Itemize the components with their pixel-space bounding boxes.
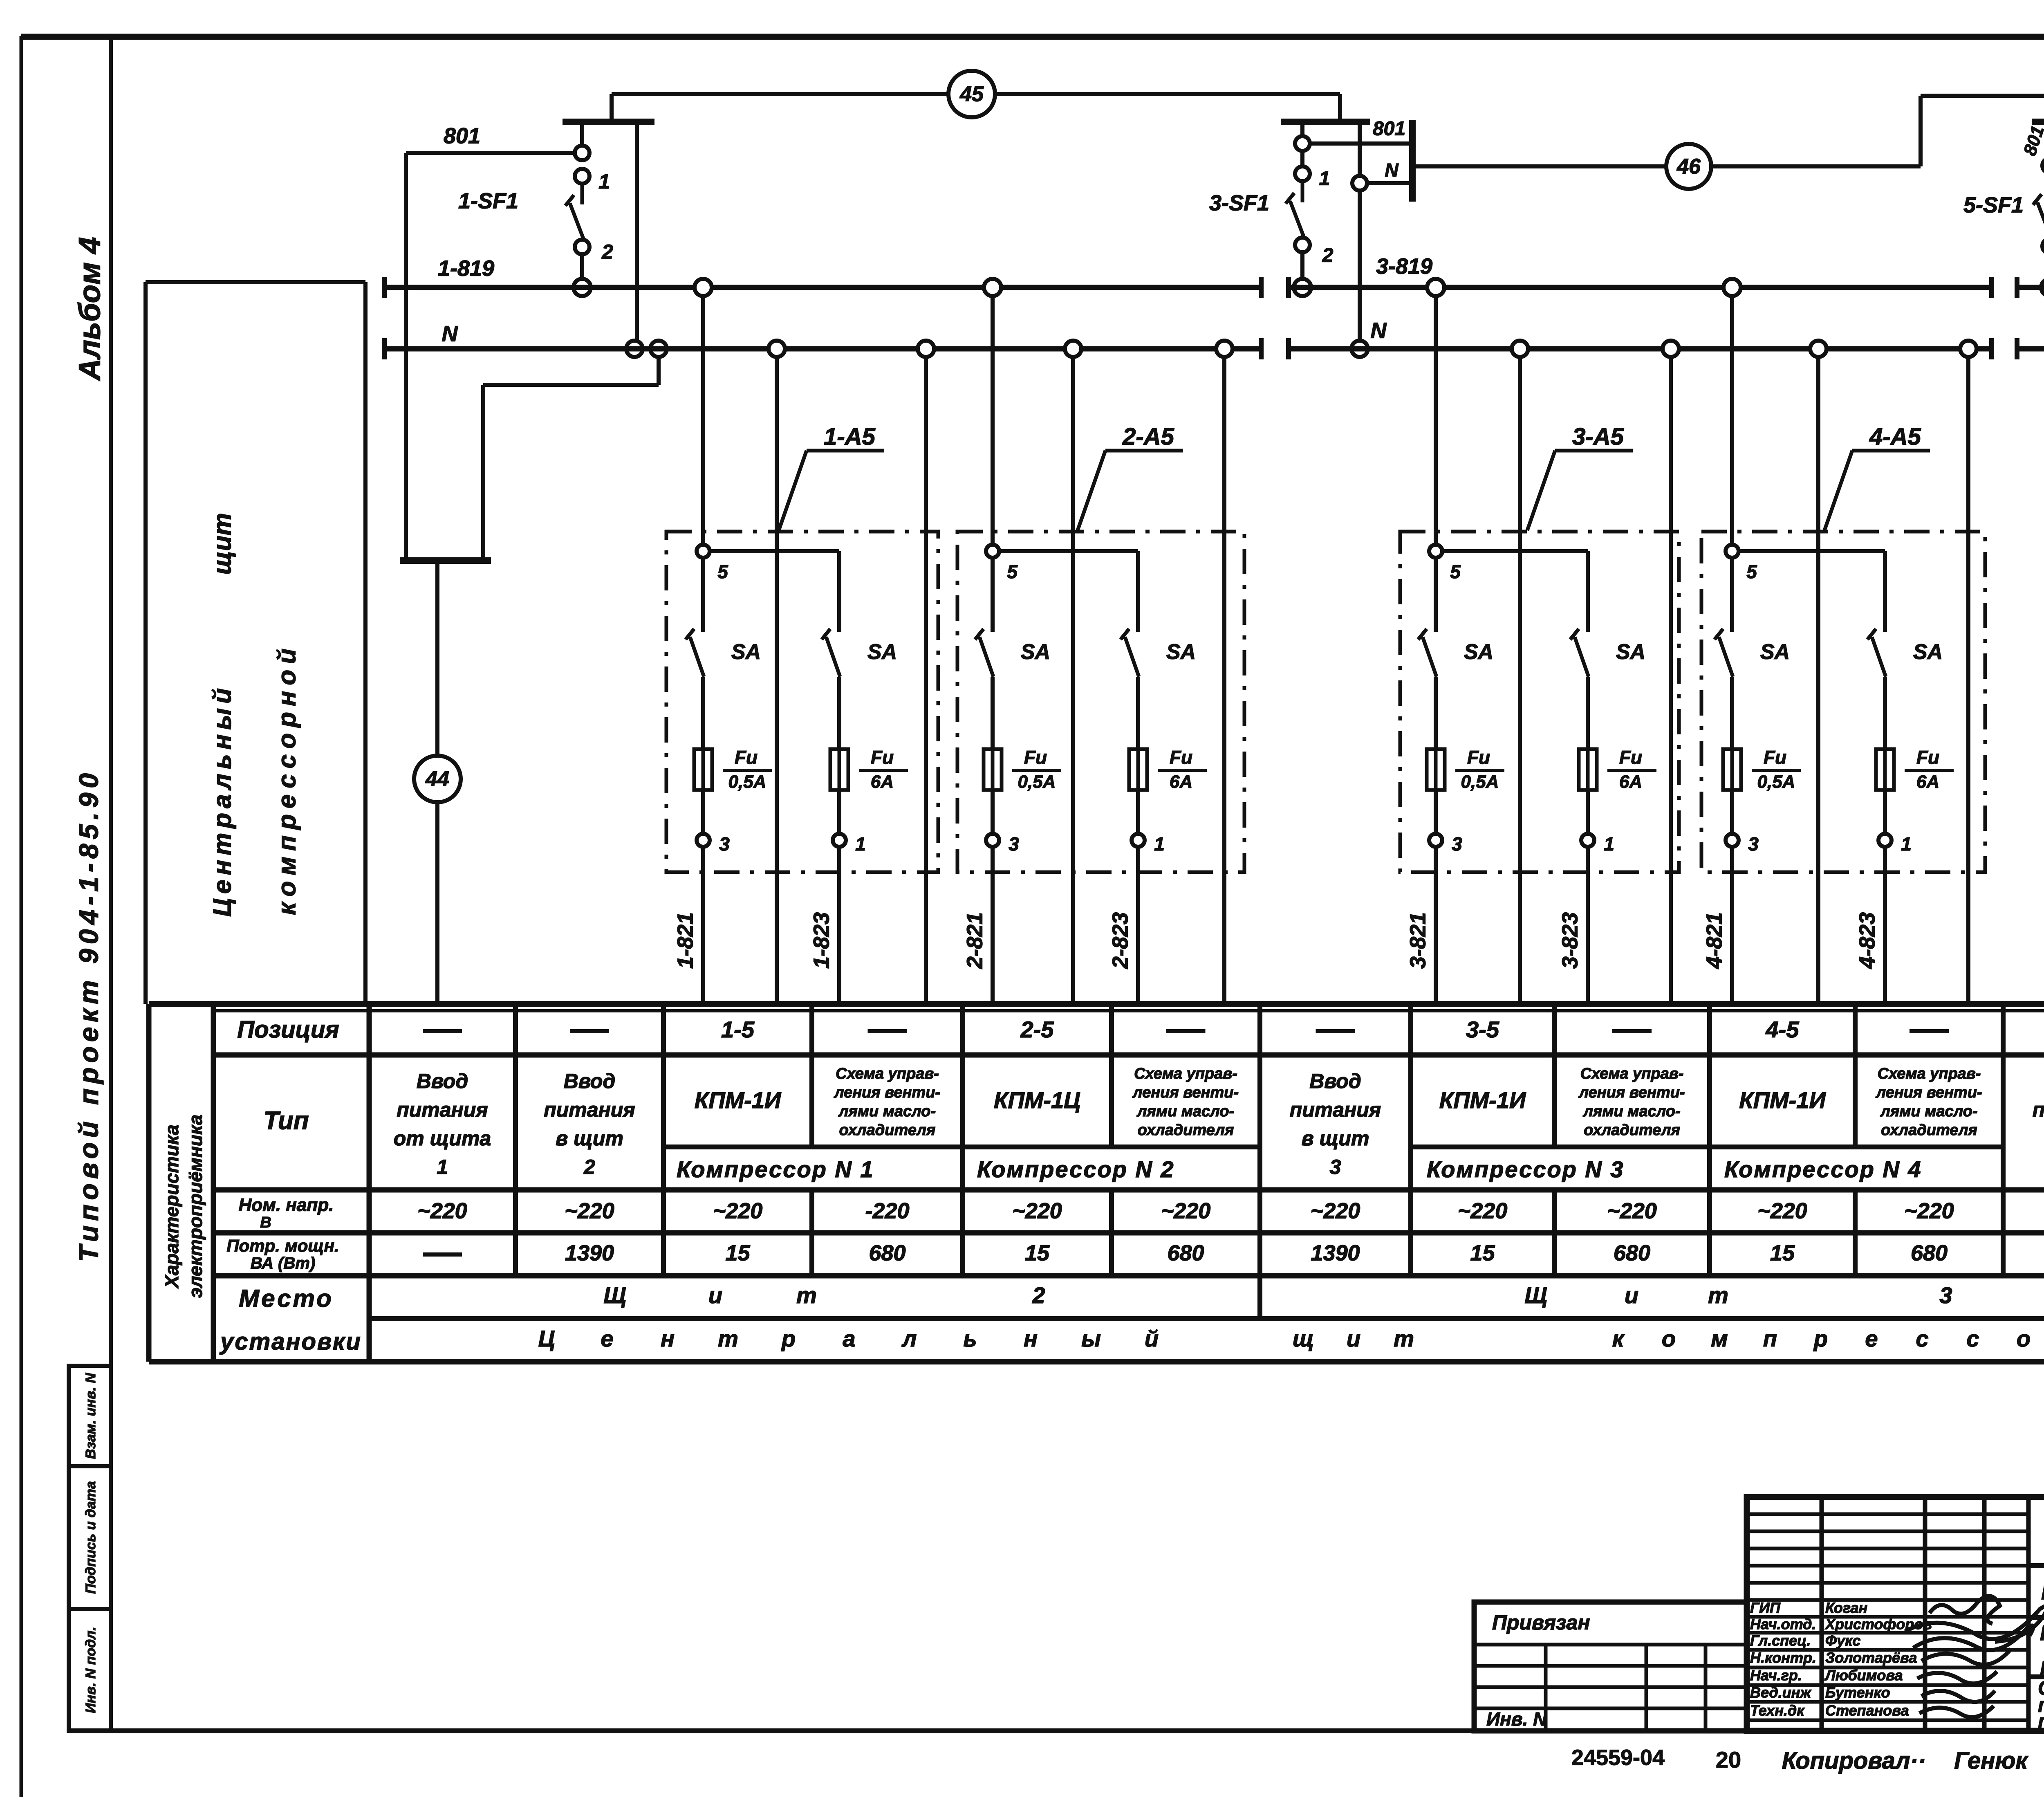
neutral drop group 3 xyxy=(1358,122,1362,349)
switch SA power branch module 3 xyxy=(1570,629,1589,677)
svg-text:680: 680 xyxy=(1614,1241,1650,1265)
svg-text:0,5А: 0,5А xyxy=(1018,772,1056,792)
svg-text:5: 5 xyxy=(717,561,728,582)
label 3-А5 with leader xyxy=(1527,423,1633,530)
svg-text:Компрессор N 1: Компрессор N 1 xyxy=(677,1156,874,1182)
svg-text:с: с xyxy=(1966,1326,1979,1351)
svg-text:2-А5: 2-А5 xyxy=(1122,423,1174,450)
svg-text:КПМ-1И: КПМ-1И xyxy=(1439,1087,1526,1113)
svg-text:Компрессор N 3: Компрессор N 3 xyxy=(1427,1156,1625,1182)
title Kompressornaya stantsiya 5KTS-160A0 xyxy=(2041,1578,2044,1605)
module box 1-А5 outline xyxy=(666,532,938,872)
svg-text:~220: ~220 xyxy=(1161,1198,1211,1223)
svg-text:~220: ~220 xyxy=(1607,1198,1657,1223)
label Privyazan xyxy=(1492,1611,1590,1634)
label 801 group 1 xyxy=(444,123,480,148)
label bus 1-819 xyxy=(438,256,494,281)
svg-text:~220: ~220 xyxy=(1757,1198,1807,1223)
sheet name lines xyxy=(2038,1676,2044,1733)
wire phase feed to terminal 5 module 3 xyxy=(1434,287,1438,545)
svg-text:Fu: Fu xyxy=(1170,747,1192,768)
neutral feed wire A module 3 xyxy=(1518,349,1522,1004)
svg-text:Схема управ-: Схема управ- xyxy=(1878,1065,1981,1082)
svg-text:Схема управ-: Схема управ- xyxy=(1580,1065,1684,1082)
svg-text:3: 3 xyxy=(719,833,730,855)
svg-text:45: 45 xyxy=(959,83,984,106)
svg-text:1-SF1: 1-SF1 xyxy=(458,189,518,213)
svg-text:3-5: 3-5 xyxy=(1466,1017,1499,1042)
table row label Nom napr xyxy=(239,1195,334,1231)
label 1-А5 with leader xyxy=(779,423,884,530)
label Fu 0,5A module 2 xyxy=(1012,747,1061,792)
svg-text:Техн.дк: Техн.дк xyxy=(1750,1702,1805,1719)
svg-text:Щ: Щ xyxy=(1524,1282,1547,1308)
wire SA to fuse module 2 control xyxy=(991,677,995,749)
svg-text:1-А5: 1-А5 xyxy=(824,423,875,450)
node neutral feed B module 2 xyxy=(1216,341,1233,357)
svg-text:SA: SA xyxy=(1616,640,1645,664)
node neutral feed A module 4 xyxy=(1810,341,1827,357)
svg-text:т: т xyxy=(1708,1282,1728,1308)
label Fu 0,5A module 3 xyxy=(1455,747,1504,792)
svg-text:3: 3 xyxy=(1748,833,1759,855)
pin 1 of 5-SF1 xyxy=(2042,154,2044,175)
terminal 1 module 4 xyxy=(1878,833,1912,855)
svg-text:Fu: Fu xyxy=(735,747,758,768)
svg-text:Фукс: Фукс xyxy=(1825,1632,1860,1649)
svg-text:1-821: 1-821 xyxy=(673,912,697,969)
svg-text:Подпись и дата: Подпись и дата xyxy=(83,1481,99,1594)
svg-text:SA: SA xyxy=(1464,640,1493,664)
svg-text:4-821: 4-821 xyxy=(1702,912,1726,969)
svg-text:Генюк: Генюк xyxy=(1954,1747,2028,1774)
svg-text:1: 1 xyxy=(1901,833,1912,855)
terminal 3 module 2 xyxy=(986,833,1019,855)
svg-text:3: 3 xyxy=(1452,833,1462,855)
sheet outer border top xyxy=(21,34,2044,40)
node module 3 on phase bus xyxy=(1427,279,1444,296)
label 1-SF1 xyxy=(458,189,518,213)
switch SA power branch module 4 xyxy=(1867,629,1886,677)
svg-text:Привязан: Привязан xyxy=(1492,1611,1590,1634)
bottom annotation line xyxy=(1571,1745,2044,1774)
table row Kompressor names xyxy=(677,1156,2044,1182)
svg-text:м: м xyxy=(1711,1326,1728,1351)
wire 3-821 to table xyxy=(1434,847,1438,1004)
svg-text:щит: щит xyxy=(208,513,236,575)
switch SA control branch module 4 xyxy=(1715,629,1733,677)
svg-text:питания: питания xyxy=(397,1098,488,1121)
node 1-SF1 on bus 1-819 xyxy=(574,279,591,296)
svg-text:SA: SA xyxy=(1913,640,1943,664)
svg-text:Степанова: Степанова xyxy=(1825,1702,1909,1719)
fuse Fu 6A module 2 xyxy=(1129,749,1147,790)
label SA control branch module 1 xyxy=(731,640,761,664)
svg-text:и: и xyxy=(1347,1326,1360,1351)
svg-text:N: N xyxy=(1371,318,1387,343)
wire 2-823 to table xyxy=(1136,847,1140,1004)
svg-text:1-5: 1-5 xyxy=(721,1017,755,1042)
svg-text:Христофоров: Христофоров xyxy=(1824,1616,1932,1633)
svg-text:ления венти-: ления венти- xyxy=(1875,1084,1982,1101)
svg-text:1: 1 xyxy=(1319,168,1330,190)
margin box Podpis i data xyxy=(69,1466,111,1609)
svg-text:5: 5 xyxy=(1450,561,1461,582)
svg-text:3: 3 xyxy=(1939,1282,1952,1308)
svg-text:Ввод: Ввод xyxy=(564,1070,616,1093)
table row Potr moshchn values xyxy=(423,1241,2044,1265)
svg-text:питания: питания xyxy=(1290,1098,1381,1121)
node neutral feed A module 1 xyxy=(769,341,785,357)
svg-text:3-821: 3-821 xyxy=(1405,912,1430,969)
svg-text:~220: ~220 xyxy=(1311,1198,1360,1223)
svg-text:р: р xyxy=(781,1326,796,1351)
terminal 5 module 2 xyxy=(986,545,1018,582)
wire SA to fuse module 3 power xyxy=(1586,677,1590,749)
node neutral drop group 1 xyxy=(626,341,643,357)
svg-text:л: л xyxy=(901,1326,917,1351)
sheet outer border left xyxy=(20,36,23,1797)
module box 4-А5 outline xyxy=(1701,532,1985,872)
svg-text:0,5А: 0,5А xyxy=(1757,772,1795,792)
wire node 801 to pin 1 group 3 xyxy=(1300,151,1304,166)
svg-text:SA: SA xyxy=(1166,640,1196,664)
wire SA to fuse module 4 control xyxy=(1730,677,1734,749)
wire fuse to terminal 3 module 2 xyxy=(991,790,995,834)
svg-text:SA: SA xyxy=(731,640,761,664)
label wire 3-821 xyxy=(1405,912,1430,969)
svg-text:5: 5 xyxy=(1007,561,1018,582)
svg-text:Fu: Fu xyxy=(871,747,894,768)
svg-text:Альбом 4: Альбом 4 xyxy=(73,237,107,381)
wire 2-821 to table xyxy=(991,847,995,1004)
wire 801 group 1 xyxy=(406,153,582,559)
svg-text:Fu: Fu xyxy=(1619,747,1642,768)
node module 4 on phase bus xyxy=(1724,279,1741,296)
node 3-SF1 on bus 3-819 xyxy=(1294,279,1311,296)
object name lines xyxy=(2040,1622,2044,1680)
svg-text:SA: SA xyxy=(1021,640,1050,664)
table row label Tip xyxy=(263,1106,309,1135)
label bus N segment 1 xyxy=(442,321,458,346)
wire SA to fuse module 2 power xyxy=(1136,677,1140,749)
svg-text:охладителя: охладителя xyxy=(1138,1122,1234,1139)
svg-text:Ввод: Ввод xyxy=(417,1070,468,1093)
svg-text:3-819: 3-819 xyxy=(1376,254,1432,278)
table row Tip values xyxy=(394,1065,2044,1178)
neutral feed wire B module 3 xyxy=(1669,349,1673,1004)
wire to meter 44 xyxy=(435,561,439,1004)
svg-text:КПМ-1Ц: КПМ-1Ц xyxy=(994,1087,1080,1113)
svg-text:15: 15 xyxy=(1770,1241,1795,1265)
svg-text:Fu: Fu xyxy=(1467,747,1490,768)
label Fu 6A module 3 xyxy=(1607,747,1656,792)
label 5-SF1 xyxy=(1963,193,2024,217)
svg-text:о: о xyxy=(2017,1326,2031,1351)
label SA power branch module 1 xyxy=(867,640,897,664)
bus N segment 1 xyxy=(384,338,1261,359)
svg-text:Золотарёва: Золотарёва xyxy=(1825,1649,1917,1666)
margin box Inv N podl xyxy=(69,1609,111,1731)
svg-text:н: н xyxy=(661,1326,675,1351)
label SA control branch module 4 xyxy=(1760,640,1790,664)
svg-text:Любимова: Любимова xyxy=(1824,1667,1903,1684)
terminal 3 module 4 xyxy=(1726,833,1759,855)
wire fuse to terminal 3 module 1 xyxy=(701,790,705,834)
table header column Kharakteristika xyxy=(161,1115,206,1298)
margin label Tipovoy proekt 904-1-85.90 xyxy=(73,769,103,1262)
svg-text:охладителя: охладителя xyxy=(1881,1122,1977,1139)
node neutral feed A module 3 xyxy=(1512,341,1528,357)
switch SA power branch module 2 xyxy=(1121,629,1139,677)
svg-text:Компрессорная: Компрессорная xyxy=(2040,1622,2044,1645)
svg-text:1390: 1390 xyxy=(1311,1241,1360,1265)
neutral feed wire A module 2 xyxy=(1071,349,1075,1004)
neutral feed wire A module 1 xyxy=(775,349,779,1004)
terminal 3 module 1 xyxy=(697,833,730,855)
label bus N segment 2 xyxy=(1371,318,1387,343)
bus N segment 3 xyxy=(2017,338,2044,359)
svg-text:ления венти-: ления венти- xyxy=(834,1084,940,1101)
svg-text:20: 20 xyxy=(1716,1747,1741,1773)
terminal 1 module 2 xyxy=(1132,833,1165,855)
svg-text:е: е xyxy=(601,1326,613,1351)
label wire 3-823 xyxy=(1558,912,1582,969)
svg-text:Схема управ-: Схема управ- xyxy=(1134,1065,1237,1082)
wire fuse to terminal 3 module 4 xyxy=(1730,790,1734,834)
svg-text:1390: 1390 xyxy=(565,1241,614,1265)
svg-text:Н.контр.: Н.контр. xyxy=(1750,1649,1816,1666)
svg-text:1-823: 1-823 xyxy=(809,912,834,969)
wire 4-823 to table xyxy=(1883,847,1887,1004)
busbar terminal strip group 3 xyxy=(1281,119,1370,125)
margin label Albom 4 xyxy=(73,237,107,381)
svg-text:в щит: в щит xyxy=(556,1127,623,1150)
neutral drop from busbar group 1 xyxy=(635,122,639,349)
label N link group 3 xyxy=(1385,159,1399,181)
svg-text:Вед.инж: Вед.инж xyxy=(1750,1684,1812,1701)
svg-text:SA: SA xyxy=(1760,640,1790,664)
svg-text:Типовой проект 904-1-85.9: Типовой проект 904-1-85.90 xyxy=(73,769,103,1262)
label kompressornoy text xyxy=(273,643,301,915)
terminal 5 module 3 xyxy=(1429,545,1461,582)
wire busbar to node 801 group 3 xyxy=(1300,122,1304,136)
svg-text:лями масло-: лями масло- xyxy=(838,1103,936,1120)
wire 801 group 3 xyxy=(1310,141,1410,146)
bus 3-819 segment 2 xyxy=(1289,277,1992,298)
title block grid xyxy=(1747,1497,2044,1731)
svg-text:3: 3 xyxy=(1330,1156,1341,1178)
svg-text:компрессорной: компрессорной xyxy=(273,643,301,915)
svg-text:~220: ~220 xyxy=(1458,1198,1508,1223)
tie wire drop to 1-SF1 busbar xyxy=(610,94,614,120)
svg-text:Компрессор N 4: Компрессор N 4 xyxy=(1724,1156,1922,1182)
svg-text:Потр. мощн.: Потр. мощн. xyxy=(226,1236,339,1255)
fuse Fu 0,5A module 4 xyxy=(1723,749,1741,790)
svg-text:щ: щ xyxy=(1293,1326,1314,1351)
signature squiggles xyxy=(1905,1596,2044,1717)
svg-text:й: й xyxy=(1145,1326,1159,1351)
label 4-А5 with leader xyxy=(1824,423,1930,530)
label wire 2-823 xyxy=(1108,912,1132,969)
bus N segment 2 xyxy=(1289,338,1992,359)
label Inv N bottom left xyxy=(1486,1708,1547,1730)
neutral feed wire B module 4 xyxy=(1966,349,1970,1004)
node module 1 on phase bus xyxy=(695,279,712,296)
svg-text:1: 1 xyxy=(1604,833,1614,855)
label Fu 6A module 1 xyxy=(859,747,908,792)
svg-text:т: т xyxy=(1394,1326,1414,1351)
switch SA power branch module 1 xyxy=(822,629,840,677)
svg-text:4-А5: 4-А5 xyxy=(1869,423,1921,450)
wire 1-821 to table xyxy=(701,847,705,1004)
wire fuse to terminal 1 module 1 xyxy=(837,790,841,834)
svg-text:~220: ~220 xyxy=(1012,1198,1062,1223)
module box 2-А5 outline xyxy=(957,532,1244,872)
svg-text:Позиция: Позиция xyxy=(237,1016,339,1043)
node neutral feed A module 2 xyxy=(1065,341,1081,357)
wire SA to fuse module 1 power xyxy=(837,677,841,749)
svg-text:1: 1 xyxy=(855,833,866,855)
meter circle 46 xyxy=(1666,144,1711,189)
table row label Potr moshchn xyxy=(226,1236,339,1272)
tie wire to meter 46 xyxy=(1415,96,2044,166)
pin 1 of 3-SF1 xyxy=(1295,166,1330,190)
svg-text:т: т xyxy=(718,1326,738,1351)
svg-text:Щ: Щ xyxy=(603,1282,626,1308)
switch SA control branch module 2 xyxy=(975,629,993,677)
wire terminal 5 link module 3 xyxy=(1441,551,1588,632)
svg-text:ь: ь xyxy=(963,1326,977,1351)
svg-text:-220: -220 xyxy=(865,1198,909,1223)
svg-text:4-5: 4-5 xyxy=(1766,1017,1800,1042)
svg-text:Ввод: Ввод xyxy=(1309,1070,1361,1093)
svg-text:3-А5: 3-А5 xyxy=(1572,423,1624,450)
svg-text:Схема управ-: Схема управ- xyxy=(836,1065,939,1082)
svg-text:680: 680 xyxy=(1911,1241,1948,1265)
svg-text:В: В xyxy=(260,1214,271,1231)
label Central shield text xyxy=(208,513,236,917)
svg-text:охладителя: охладителя xyxy=(839,1122,936,1139)
svg-text:Компрессорная станция 5КЦ-160: Компрессорная станция 5КЦ-160А0 xyxy=(2041,1578,2044,1605)
label Fu 0,5A module 4 xyxy=(1752,747,1801,792)
fuse Fu 6A module 1 xyxy=(830,749,848,790)
tie wire to meter 45 horizontal xyxy=(612,92,1340,96)
wire fuse to terminal 1 module 3 xyxy=(1586,790,1590,834)
wire 4-821 to table xyxy=(1730,847,1734,1004)
fuse Fu 6A module 3 xyxy=(1579,749,1597,790)
svg-text:охладителя: охладителя xyxy=(1584,1122,1680,1139)
terminal 5 module 4 xyxy=(1726,545,1757,582)
svg-text:15: 15 xyxy=(1470,1241,1495,1265)
svg-text:ления венти-: ления венти- xyxy=(1578,1084,1685,1101)
label 3-SF1 xyxy=(1209,191,1269,215)
label wire 4-823 xyxy=(1855,912,1879,969)
table row Mesto shchit values xyxy=(603,1282,2044,1308)
circuit breaker 3-SF1 blade xyxy=(1286,181,1304,238)
svg-text:КПМ-1И: КПМ-1И xyxy=(1739,1087,1826,1113)
svg-text:15: 15 xyxy=(1025,1241,1050,1265)
svg-text:р: р xyxy=(1813,1326,1828,1351)
node step wire on bus N xyxy=(650,341,667,357)
node 801 group 3 xyxy=(1295,136,1310,151)
svg-text:Характеристика: Характеристика xyxy=(161,1124,182,1289)
label Fu 6A module 2 xyxy=(1158,747,1207,792)
svg-text:680: 680 xyxy=(1167,1241,1204,1265)
fuse Fu 0,5A module 1 xyxy=(694,749,712,790)
svg-text:801: 801 xyxy=(1373,118,1405,140)
wire SA to fuse module 1 control xyxy=(701,677,705,749)
svg-text:5: 5 xyxy=(1746,561,1757,582)
node neutral feed B module 3 xyxy=(1663,341,1679,357)
svg-text:п: п xyxy=(1763,1326,1777,1351)
svg-text:КПМ-1И: КПМ-1И xyxy=(695,1087,782,1113)
svg-text:питания: питания xyxy=(544,1098,635,1121)
Privyazan block grid xyxy=(1474,1602,1747,1731)
wire terminal 5 down module 1 xyxy=(701,558,705,632)
svg-text:Копировал··: Копировал·· xyxy=(1782,1747,1926,1774)
svg-text:44: 44 xyxy=(425,767,449,791)
svg-text:2: 2 xyxy=(1032,1282,1045,1308)
svg-text:Взам. инв. N: Взам. инв. N xyxy=(83,1372,99,1459)
signature rows roles and names xyxy=(1750,1600,1932,1719)
svg-text:6А: 6А xyxy=(871,772,894,792)
svg-text:ы: ы xyxy=(1081,1326,1101,1351)
characteristics table grid xyxy=(149,1004,2044,1362)
svg-text:с: с xyxy=(1916,1326,1928,1351)
panel terminal strip above meter 44 xyxy=(400,557,491,564)
wire terminal 5 down module 2 xyxy=(991,558,995,632)
svg-text:5-SF1: 5-SF1 xyxy=(1963,193,2024,217)
label SA power branch module 3 xyxy=(1616,640,1645,664)
svg-text:~220: ~220 xyxy=(565,1198,614,1223)
node neutral feed B module 1 xyxy=(918,341,934,357)
svg-text:Инв. N подл.: Инв. N подл. xyxy=(83,1627,99,1713)
wire fuse to terminal 1 module 2 xyxy=(1136,790,1140,834)
svg-text:установки: установки xyxy=(219,1328,362,1355)
wire fuse to terminal 1 module 4 xyxy=(1883,790,1887,834)
wire terminal 5 link module 2 xyxy=(998,551,1138,632)
svg-text:~220: ~220 xyxy=(417,1198,467,1223)
label 2-А5 with leader xyxy=(1078,423,1183,530)
svg-text:Инв. N: Инв. N xyxy=(1486,1708,1547,1730)
terminal 5 module 1 xyxy=(697,545,728,582)
label wire 1-821 xyxy=(673,912,697,969)
wire phase feed to terminal 5 module 2 xyxy=(991,287,995,545)
svg-text:2: 2 xyxy=(601,240,613,263)
svg-text:питания: питания xyxy=(2033,1098,2044,1121)
svg-text:~220: ~220 xyxy=(713,1198,763,1223)
svg-text:Центральный: Центральный xyxy=(208,684,236,917)
module box 3-А5 outline xyxy=(1400,532,1679,872)
label bus 3-819 xyxy=(1376,254,1432,278)
svg-text:н: н xyxy=(1024,1326,1038,1351)
svg-text:3-SF1: 3-SF1 xyxy=(1209,191,1269,215)
svg-text:4-823: 4-823 xyxy=(1855,912,1879,969)
svg-text:а: а xyxy=(843,1326,855,1351)
table row label Mesto ustanovki xyxy=(219,1285,362,1355)
label Fu 0,5A module 1 xyxy=(723,747,772,792)
svg-text:6А: 6А xyxy=(1916,772,1939,792)
wire 1-823 to table xyxy=(837,847,841,1004)
svg-text:24559-04: 24559-04 xyxy=(1571,1745,1665,1770)
wire terminal 5 link module 4 xyxy=(1738,551,1885,632)
terminal 1 module 3 xyxy=(1581,833,1614,855)
switch SA control branch module 3 xyxy=(1418,629,1437,677)
label wire 1-823 xyxy=(809,912,834,969)
svg-text:Fu: Fu xyxy=(1024,747,1047,768)
svg-text:Нач.отд.: Нач.отд. xyxy=(1750,1616,1816,1633)
